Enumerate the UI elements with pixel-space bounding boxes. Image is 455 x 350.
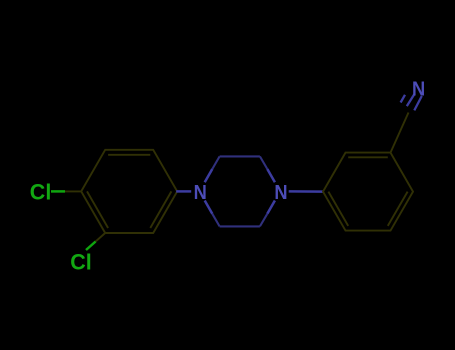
right benzene ring (benzonitrile): [323, 153, 413, 231]
bond aryl to nitrile C: [391, 113, 409, 153]
bond aryl to N1: [176, 190, 191, 193]
svg-text:N: N: [194, 181, 207, 204]
svg-text:Cl: Cl: [30, 180, 52, 205]
bond C3-Cl carbon half: [96, 233, 106, 242]
svg-text:Cl: Cl: [70, 250, 92, 275]
bond C4-Cl chlorine half: [51, 190, 65, 193]
nitrile triple bond: [401, 94, 422, 110]
bond C3-Cl chlorine half: [86, 242, 96, 251]
bond N2 to aryl: [289, 190, 324, 193]
bond C4-Cl carbon half: [65, 190, 81, 192]
svg-text:N: N: [274, 181, 287, 204]
svg-text:N: N: [412, 77, 425, 100]
left benzene ring (3,4-dichlorophenyl): [81, 150, 177, 233]
piperazine ring: [205, 156, 275, 226]
